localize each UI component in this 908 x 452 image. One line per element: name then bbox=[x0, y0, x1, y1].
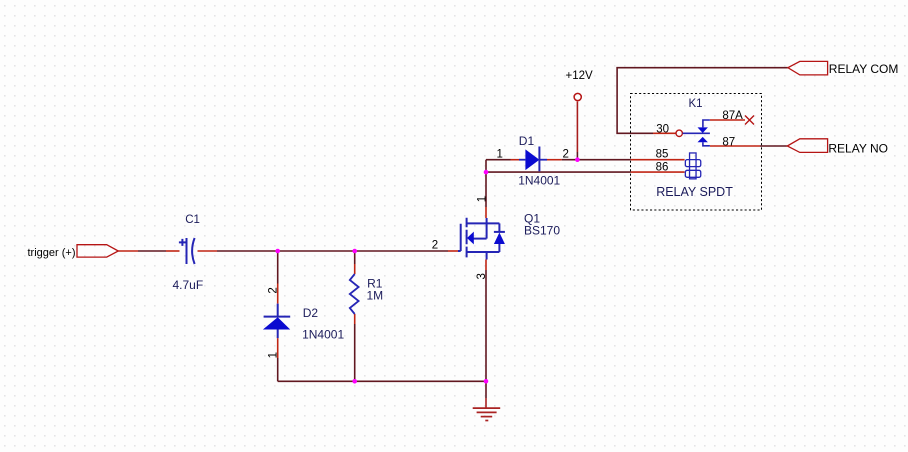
resistor R1 bbox=[350, 274, 359, 314]
svg-text:2: 2 bbox=[432, 240, 438, 252]
node junction trigger/R1 bbox=[352, 249, 357, 254]
svg-text:3: 3 bbox=[476, 273, 488, 279]
svg-text:RELAY NO: RELAY NO bbox=[828, 142, 888, 156]
wire 87A stub bbox=[710, 119, 745, 121]
diode D1 bbox=[525, 147, 539, 172]
diode D2 bbox=[263, 304, 290, 339]
svg-text:1: 1 bbox=[477, 196, 489, 202]
svg-text:30: 30 bbox=[656, 124, 669, 136]
wire pin stubs trigger/C1 bbox=[118, 250, 217, 252]
wire R1 branch vertical bbox=[354, 251, 356, 381]
svg-text:+12V: +12V bbox=[566, 70, 594, 82]
svg-text:2: 2 bbox=[563, 148, 569, 160]
no-connect X on 87A bbox=[745, 116, 754, 125]
svg-text:1N4001: 1N4001 bbox=[518, 174, 560, 188]
power +12V bbox=[574, 93, 581, 100]
svg-text:85: 85 bbox=[656, 149, 669, 161]
svg-text:RELAY SPDT: RELAY SPDT bbox=[656, 185, 733, 199]
svg-text:D2: D2 bbox=[303, 306, 319, 320]
wire Q1 drain vertical to D1 line bbox=[485, 160, 487, 218]
svg-text:87A: 87A bbox=[722, 110, 743, 122]
svg-text:D1: D1 bbox=[519, 134, 535, 148]
node junction drain/86 bbox=[484, 170, 489, 175]
Q1 arrow bbox=[467, 232, 474, 245]
relay contact 87A bbox=[698, 120, 710, 133]
relay coil K1 bbox=[685, 153, 700, 179]
wire trigger net horizontal bbox=[138, 250, 448, 252]
connector trigger (+) flag bbox=[77, 245, 118, 257]
node junction +12V/85 bbox=[575, 157, 580, 162]
wire bottom rail bbox=[278, 380, 486, 382]
svg-text:86: 86 bbox=[656, 161, 669, 173]
connector RELAY COM flag bbox=[788, 61, 828, 75]
wire relay COM path bbox=[617, 68, 788, 134]
wire Q1 source to ground bbox=[485, 260, 487, 408]
relay contact 87 bbox=[698, 137, 710, 146]
transistor Q1 (BS170 MOSFET) bbox=[458, 218, 505, 260]
svg-text:2: 2 bbox=[267, 287, 279, 293]
wire 87 to RELAY NO bbox=[710, 145, 787, 147]
svg-text:RELAY COM: RELAY COM bbox=[829, 62, 899, 76]
svg-text:K1: K1 bbox=[689, 98, 703, 110]
svg-text:1: 1 bbox=[267, 352, 279, 358]
ground bbox=[473, 408, 501, 420]
relay K1 dashed box bbox=[631, 94, 762, 211]
svg-text:1N4001: 1N4001 bbox=[302, 327, 344, 341]
wire +12V vertical bbox=[576, 102, 578, 153]
svg-text:4.7uF: 4.7uF bbox=[173, 278, 204, 292]
node junction R1/bottom rail bbox=[352, 379, 357, 384]
node junction trigger/D2 bbox=[275, 249, 280, 254]
svg-text:trigger (+): trigger (+) bbox=[28, 247, 76, 259]
relay contact pole pin 30 bbox=[676, 130, 682, 136]
svg-text:1: 1 bbox=[497, 148, 503, 160]
Q1 body diode triangle bbox=[494, 233, 505, 245]
svg-text:C1: C1 bbox=[185, 214, 200, 226]
wire D1 / 85 line bbox=[486, 159, 685, 161]
wire D2 branch vertical bbox=[277, 251, 279, 381]
svg-text:1M: 1M bbox=[367, 289, 384, 303]
wire pin30 stub bbox=[653, 132, 676, 134]
svg-text:BS170: BS170 bbox=[524, 224, 560, 238]
connector RELAY NO flag bbox=[787, 139, 827, 153]
wire Q1 gate stub bbox=[448, 250, 458, 252]
wire 86 line bbox=[486, 171, 685, 173]
node junction bottom rail/ground bbox=[484, 379, 489, 384]
capacitor C1 bbox=[179, 238, 195, 264]
svg-text:87: 87 bbox=[722, 136, 735, 148]
